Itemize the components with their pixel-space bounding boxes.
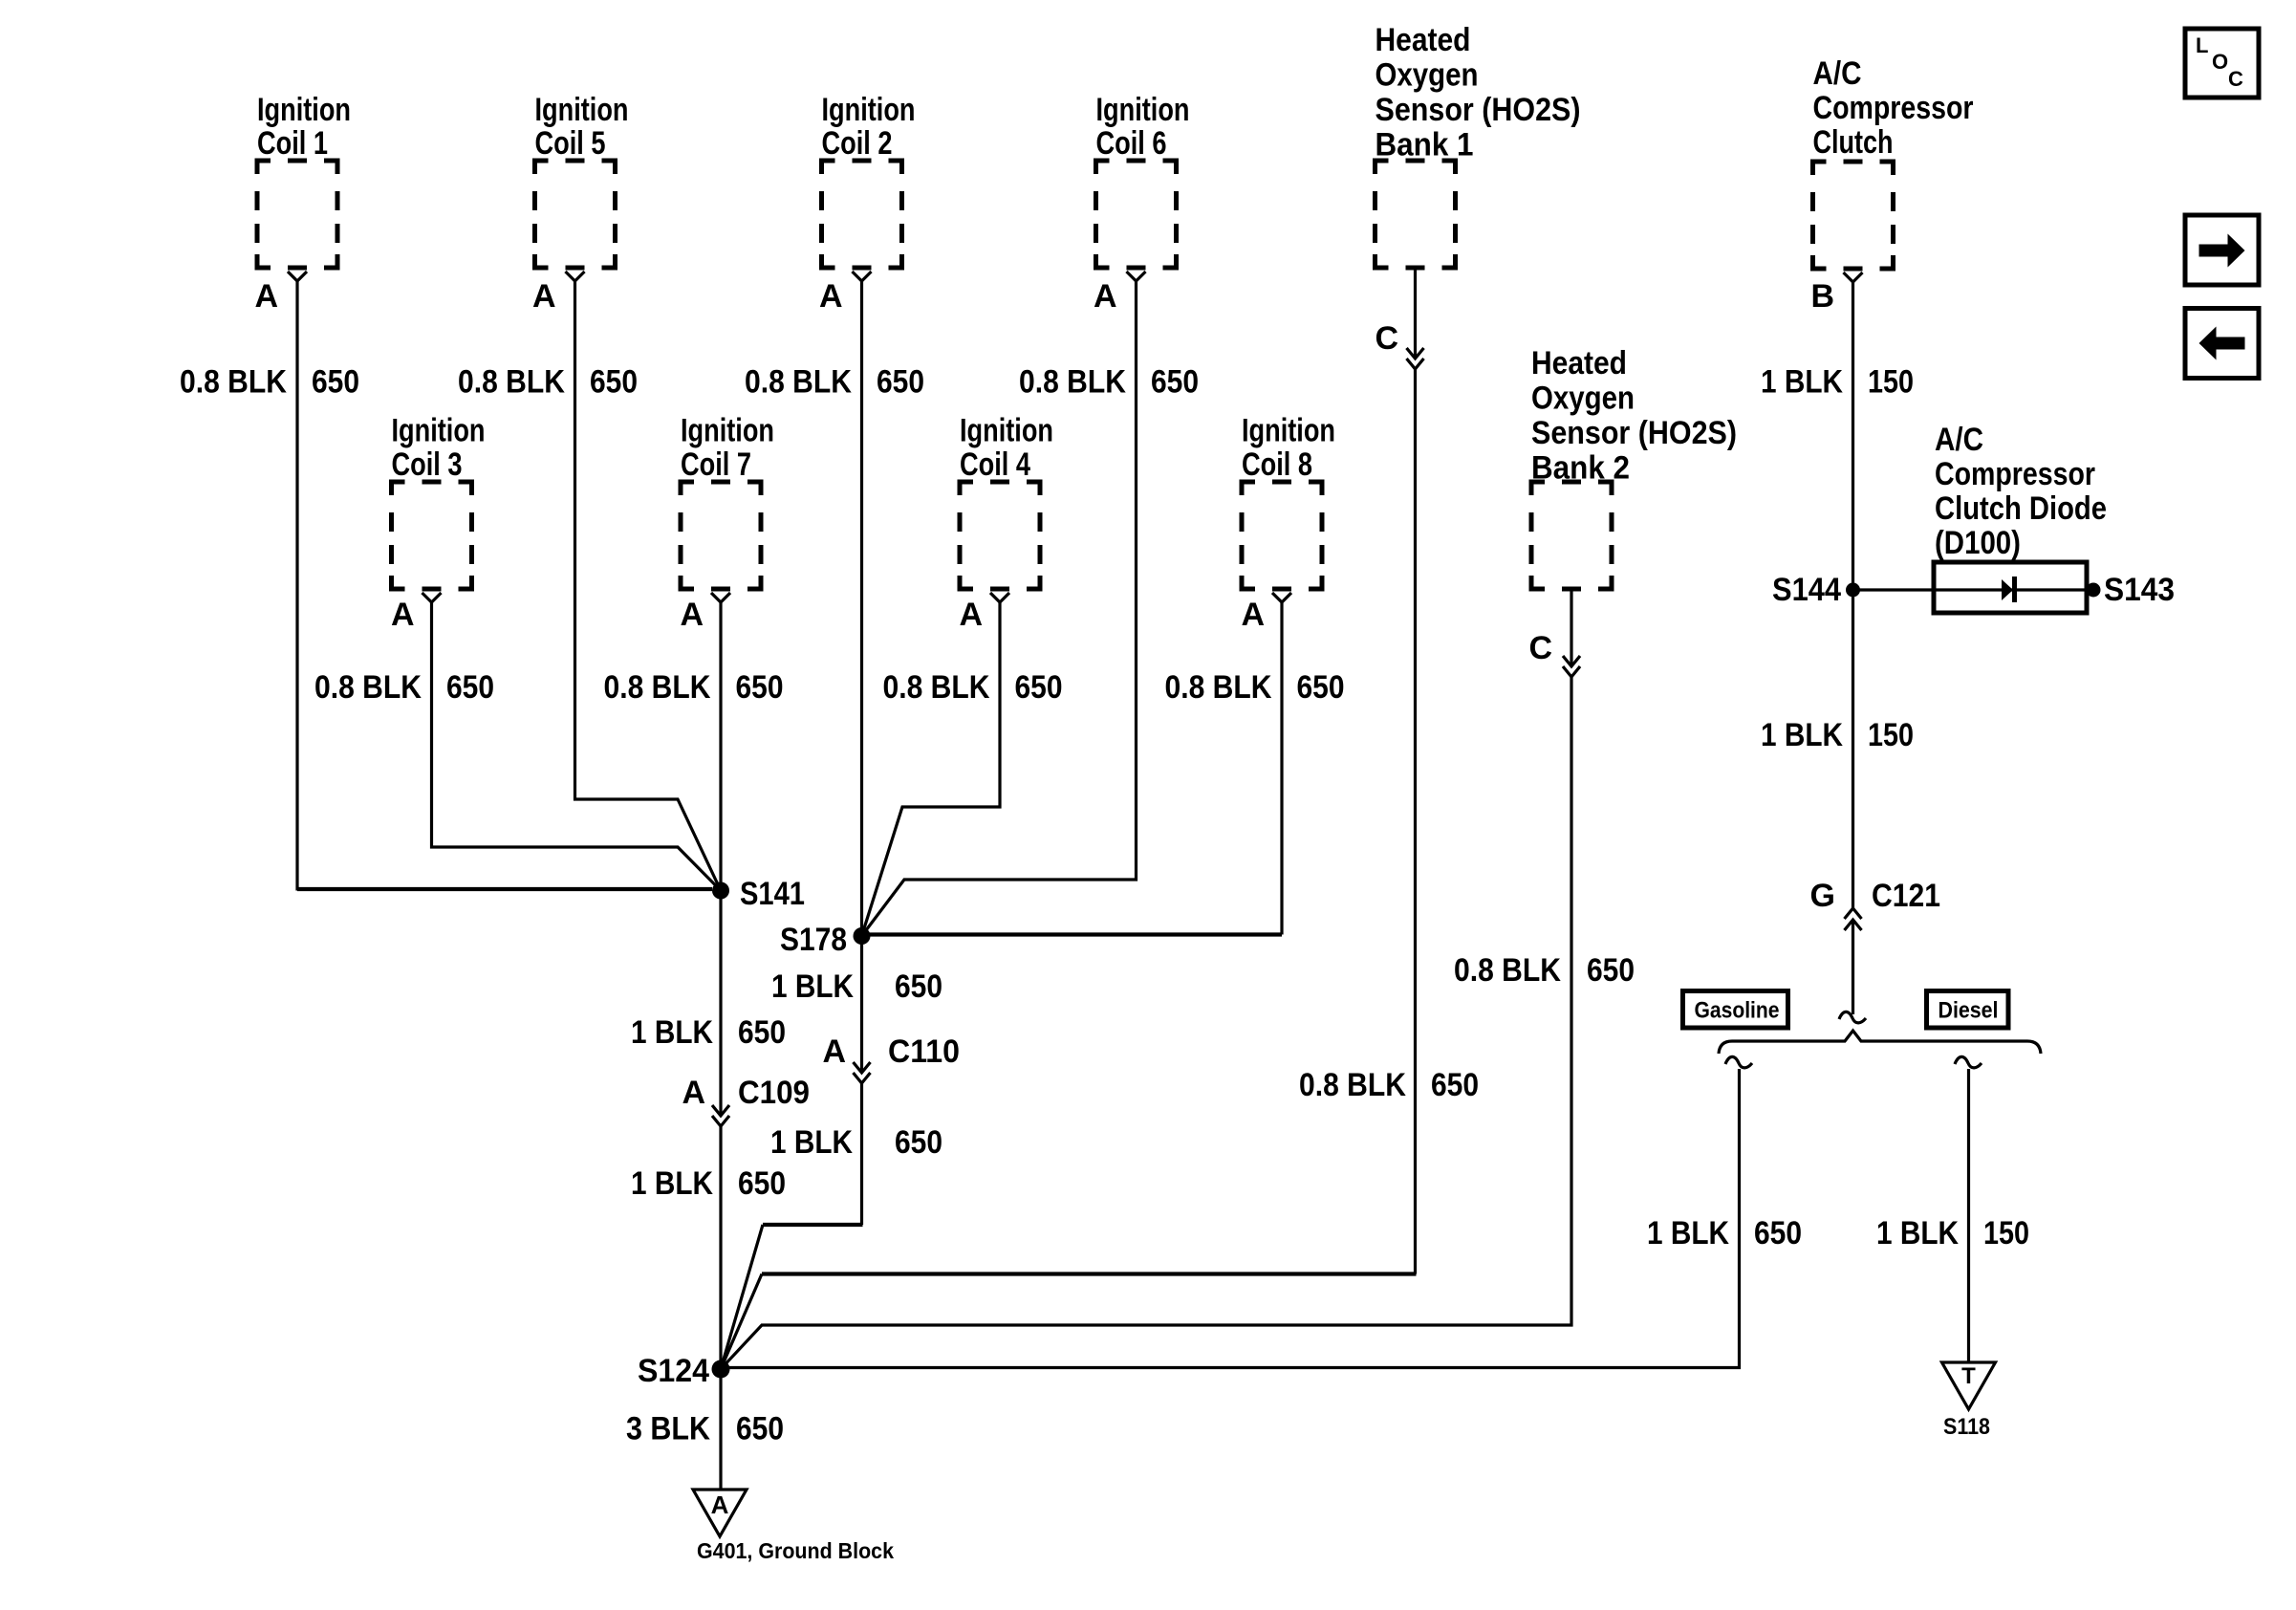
ignition coil 7 label (681, 413, 774, 484)
svg-text:A: A (1241, 597, 1265, 633)
ignition coil 5 label (535, 92, 629, 162)
wire coil 4 to S178 (862, 602, 1001, 936)
wire label 0.8 BLK 650 (coil 5) (458, 364, 638, 401)
diode D100 symbol (2002, 577, 2017, 602)
svg-text:A: A (682, 1075, 705, 1111)
wire label 0.8 BLK 650 (coil 4) (883, 669, 1063, 706)
svg-text:C: C (1375, 320, 1398, 357)
svg-text:Coil 2: Coil 2 (822, 125, 893, 162)
splice S124 (712, 1360, 730, 1379)
svg-text:150: 150 (1868, 364, 1914, 401)
svg-text:A: A (819, 278, 843, 315)
heated oxygen sensor HO2S bank 1 connector box (1375, 161, 1456, 268)
svg-text:Clutch: Clutch (1813, 124, 1894, 161)
splice symbol S118 (1942, 1362, 1996, 1409)
coil 6 arrow (1127, 272, 1146, 281)
svg-text:650: 650 (590, 364, 638, 401)
wire label 0.8 BLK 650 (coil 3) (314, 669, 494, 706)
svg-text:650: 650 (1015, 669, 1063, 706)
svg-text:Diesel: Diesel (1939, 998, 1999, 1024)
svg-text:1 BLK: 1 BLK (1761, 364, 1843, 401)
svg-text:Ignition: Ignition (1242, 413, 1335, 449)
svg-text:1 BLK: 1 BLK (770, 1124, 853, 1161)
connector C110 arrow (854, 1062, 871, 1083)
svg-text:0.8 BLK: 0.8 BLK (1454, 952, 1561, 989)
wire label 0.8 BLK 650 (coil 8) (1165, 669, 1345, 706)
svg-text:1 BLK: 1 BLK (631, 1165, 713, 1202)
splice S141 (712, 882, 729, 900)
svg-text:A: A (822, 1033, 846, 1070)
svg-text:A: A (391, 597, 415, 633)
svg-text:650: 650 (1754, 1215, 1802, 1251)
svg-text:0.8 BLK: 0.8 BLK (314, 669, 422, 706)
svg-text:650: 650 (736, 669, 784, 706)
svg-text:A: A (532, 278, 556, 315)
svg-text:Coil 1: Coil 1 (257, 125, 328, 162)
svg-text:650: 650 (738, 1165, 786, 1202)
wire label 0.8 BLK 650 (coil 6) (1019, 364, 1199, 401)
coil 2 arrow (853, 272, 872, 281)
svg-text:C109: C109 (738, 1075, 810, 1111)
svg-text:1 BLK: 1 BLK (631, 1014, 713, 1051)
coil 8 arrow (1272, 593, 1291, 602)
A/C clutch arrow (1844, 272, 1863, 282)
wire label 3 BLK 650 (below S124) (626, 1411, 784, 1447)
wire coil 8 to S178 (1280, 602, 1283, 935)
heated oxygen sensor HO2S bank 2 connector box (1531, 482, 1612, 589)
svg-text:Heated: Heated (1375, 22, 1471, 58)
svg-text:650: 650 (1151, 364, 1199, 401)
A/C compressor clutch connector box (1813, 162, 1894, 269)
A/C compressor clutch diode D100 box (1934, 562, 2087, 613)
svg-text:S178: S178 (780, 922, 847, 958)
svg-text:L: L (2196, 33, 2208, 57)
svg-text:Coil 4: Coil 4 (960, 446, 1030, 483)
svg-text:Gasoline: Gasoline (1695, 998, 1780, 1024)
right arrow legend box (2185, 215, 2259, 285)
wire S141 trunk below C109 to S124 and ground (719, 1126, 722, 1490)
svg-text:A: A (1094, 278, 1117, 315)
ignition coil 1 connector box (257, 161, 337, 268)
wire S178 trunk below C110 to S124 (860, 1083, 863, 1225)
svg-text:650: 650 (1297, 669, 1345, 706)
svg-text:S118: S118 (1943, 1414, 1990, 1440)
coil 3 arrow (422, 593, 442, 602)
wire label 1 BLK 650 (S178 trunk) (771, 968, 942, 1005)
svg-text:Oxygen: Oxygen (1531, 381, 1635, 417)
svg-text:1 BLK: 1 BLK (1647, 1215, 1729, 1251)
svg-text:T: T (1961, 1363, 1976, 1389)
svg-text:Compressor: Compressor (1813, 90, 1974, 126)
ignition coil 6 connector box (1096, 161, 1177, 268)
svg-text:0.8 BLK: 0.8 BLK (1165, 669, 1272, 706)
diesel callout box (1927, 991, 2009, 1029)
svg-text:650: 650 (738, 1014, 786, 1051)
svg-text:A: A (711, 1490, 729, 1519)
ignition coil 2 label (822, 92, 916, 162)
in-line connector arrow on HO2S bank 2 wire (1563, 656, 1580, 677)
svg-text:A: A (254, 278, 278, 315)
wire label 0.8 BLK 650 (coil 2) (745, 364, 924, 401)
svg-text:Sensor (HO2S): Sensor (HO2S) (1531, 415, 1737, 451)
svg-text:650: 650 (1431, 1067, 1479, 1103)
wire label 0.8 BLK 650 (HO2S bank 2) (1454, 952, 1635, 989)
svg-text:Heated: Heated (1531, 345, 1627, 381)
svg-text:0.8 BLK: 0.8 BLK (1299, 1067, 1406, 1103)
svg-text:0.8 BLK: 0.8 BLK (1019, 364, 1126, 401)
svg-text:S141: S141 (740, 876, 805, 912)
wire gasoline branch to S124 (721, 1069, 1740, 1368)
svg-text:Coil 5: Coil 5 (535, 125, 606, 162)
svg-text:Coil 8: Coil 8 (1242, 446, 1312, 483)
ignition coil 8 label (1242, 413, 1335, 484)
svg-text:Coil 3: Coil 3 (392, 446, 463, 483)
wire label 0.8 BLK 650 (HO2S bank 1) (1299, 1067, 1479, 1103)
ground symbol G401 (693, 1490, 747, 1536)
splice S143 (2087, 583, 2101, 598)
svg-text:C110: C110 (888, 1033, 960, 1070)
HO2S bank 2 label (1531, 345, 1737, 487)
svg-text:(D100): (D100) (1935, 525, 2021, 561)
svg-text:0.8 BLK: 0.8 BLK (745, 364, 852, 401)
svg-text:650: 650 (446, 669, 494, 706)
svg-text:650: 650 (736, 1411, 784, 1447)
svg-text:Ignition: Ignition (392, 413, 486, 449)
wire label 1 BLK 650 (below C110) (770, 1124, 942, 1161)
svg-text:650: 650 (877, 364, 924, 401)
svg-text:C: C (1528, 630, 1552, 666)
svg-text:S124: S124 (638, 1353, 709, 1389)
svg-text:A: A (680, 597, 704, 633)
svg-text:Ignition: Ignition (681, 413, 774, 449)
wire label 0.8 BLK 650 (coil 7) (604, 669, 784, 706)
diesel branch squiggle (1955, 1056, 1982, 1068)
wire coil 3 to S141 (432, 602, 722, 891)
svg-text:A/C: A/C (1935, 422, 1983, 458)
coil 5 arrow (566, 272, 585, 281)
svg-text:Ignition: Ignition (257, 92, 351, 128)
svg-text:G: G (1810, 878, 1835, 914)
coil 4 arrow (990, 593, 1009, 602)
wire S144 to S143 through diode (1853, 588, 2094, 591)
svg-text:Ignition: Ignition (535, 92, 629, 128)
svg-text:1 BLK: 1 BLK (771, 968, 854, 1005)
wire HO2S bank 2 lower to S124 (721, 677, 1571, 1369)
svg-text:Coil 7: Coil 7 (681, 446, 751, 483)
svg-text:Clutch Diode: Clutch Diode (1935, 490, 2107, 527)
svg-text:Compressor: Compressor (1935, 456, 2095, 492)
ignition coil 4 label (960, 413, 1053, 484)
ignition coil 7 connector box (681, 482, 761, 589)
svg-text:0.8 BLK: 0.8 BLK (180, 364, 287, 401)
ignition coil 4 connector box (960, 482, 1040, 589)
svg-text:G401, Ground Block: G401, Ground Block (697, 1538, 894, 1563)
left arrow legend box (2185, 309, 2259, 379)
svg-text:Bank 2: Bank 2 (1531, 450, 1630, 487)
split brace (1719, 1031, 2041, 1054)
wire HO2S bank 1 lower to S124 (1414, 369, 1417, 1274)
svg-text:1 BLK: 1 BLK (1761, 717, 1843, 753)
wire C121 to engine split (1852, 920, 1854, 1014)
svg-text:650: 650 (895, 968, 942, 1005)
wire label 1 BLK 150 (diesel branch) (1876, 1215, 2029, 1251)
LOC legend box (2185, 29, 2259, 98)
splice S178 (854, 927, 871, 945)
wire coil 7 trunk down through S141 to C109 (719, 602, 722, 1116)
wire HO2S bank 2 upper (1570, 589, 1572, 666)
wire label 1 BLK 650 (S141 trunk) (631, 1014, 786, 1051)
wire label 1 BLK 650 (below C109) (631, 1165, 786, 1202)
ignition coil 3 connector box (392, 482, 472, 589)
wire S178 trunk to C110 (860, 936, 863, 1073)
A/C compressor clutch diode label (1935, 422, 2107, 561)
svg-text:C: C (2228, 67, 2243, 91)
svg-text:Sensor (HO2S): Sensor (HO2S) (1375, 92, 1581, 128)
wire label 0.8 BLK 650 (coil 1) (180, 364, 359, 401)
svg-text:Ignition: Ignition (822, 92, 916, 128)
splice S144 (1846, 583, 1860, 598)
wire label 1 BLK 650 (gasoline branch) (1647, 1215, 1802, 1251)
gasoline branch squiggle (1725, 1056, 1752, 1068)
ignition coil 8 connector box (1242, 482, 1322, 589)
svg-text:150: 150 (1868, 717, 1914, 753)
ignition coil 5 connector box (535, 161, 616, 268)
svg-text:1 BLK: 1 BLK (1876, 1215, 1959, 1251)
wire coil 5 to S141 (575, 281, 722, 891)
wire break squiggle at split center (1839, 1012, 1866, 1023)
svg-text:A/C: A/C (1813, 55, 1862, 92)
svg-text:650: 650 (1587, 952, 1635, 989)
connector C121 arrow (pointing up) (1845, 908, 1862, 930)
svg-text:Ignition: Ignition (960, 413, 1053, 449)
svg-text:C121: C121 (1872, 878, 1940, 914)
wire HO2S bank 1 upper (1414, 268, 1417, 359)
svg-text:0.8 BLK: 0.8 BLK (604, 669, 711, 706)
coil 1 arrow (288, 272, 307, 281)
ignition coil 3 label (392, 413, 486, 484)
gasoline callout box (1683, 991, 1788, 1029)
svg-text:Oxygen: Oxygen (1375, 57, 1479, 94)
coil 7 arrow (711, 593, 730, 602)
A/C compressor clutch label (1813, 55, 1974, 161)
svg-text:150: 150 (1983, 1215, 2029, 1251)
svg-text:3 BLK: 3 BLK (626, 1411, 710, 1447)
svg-text:Ignition: Ignition (1096, 92, 1190, 128)
svg-text:S143: S143 (2104, 572, 2175, 608)
ignition coil 6 label (1096, 92, 1190, 162)
svg-text:650: 650 (312, 364, 359, 401)
svg-text:S144: S144 (1772, 572, 1841, 608)
svg-text:650: 650 (895, 1124, 942, 1161)
wire label 1 BLK 150 (A/C clutch upper) (1761, 364, 1914, 401)
wire coil 6 to S178 (862, 281, 1137, 936)
wire label 1 BLK 150 (between S144 and C121) (1761, 717, 1914, 753)
connector C109 arrow (712, 1105, 729, 1126)
wire coil 2 trunk to S178 (860, 281, 863, 936)
svg-text:A: A (959, 597, 983, 633)
in-line connector arrow on HO2S bank 1 wire (1407, 348, 1424, 369)
svg-text:Coil 6: Coil 6 (1096, 125, 1167, 162)
svg-text:B: B (1810, 278, 1834, 315)
wire coil 1 to S141 (295, 281, 298, 891)
svg-text:0.8 BLK: 0.8 BLK (458, 364, 565, 401)
svg-text:O: O (2212, 50, 2228, 74)
ignition coil 2 connector box (822, 161, 902, 268)
svg-text:Bank 1: Bank 1 (1375, 127, 1474, 163)
svg-text:0.8 BLK: 0.8 BLK (883, 669, 990, 706)
HO2S bank 1 label (1375, 22, 1581, 163)
wire diesel branch to S118 (1967, 1069, 1970, 1362)
wire A/C clutch down through S144 to C121 (1852, 282, 1854, 908)
ignition coil 1 label (257, 92, 351, 162)
